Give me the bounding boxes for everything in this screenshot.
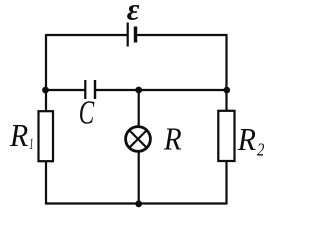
wire lamp branch lower — [138, 152, 140, 205]
battery EMF source — [128, 23, 136, 47]
junction node left — [42, 87, 49, 94]
wire middle-left horizontal — [46, 89, 85, 91]
wire lamp branch upper — [138, 89, 140, 127]
capacitor right plate — [94, 80, 96, 99]
svg-text:2: 2 — [257, 140, 264, 160]
battery short thick plate — [134, 27, 137, 43]
junction node right — [224, 87, 231, 94]
svg-text:R: R — [9, 117, 29, 153]
lamp R — [126, 127, 151, 152]
svg-text:R: R — [163, 120, 182, 156]
wire middle-right horizontal — [96, 89, 227, 91]
capacitor left plate — [84, 80, 86, 99]
svg-text:1: 1 — [29, 136, 33, 153]
wire top-left horizontal — [46, 34, 127, 36]
junction node bottom — [135, 200, 142, 207]
battery long plate — [127, 23, 129, 47]
wire right vertical lower — [225, 160, 227, 205]
svg-text:ε: ε — [127, 0, 140, 26]
capacitor C — [85, 80, 95, 99]
svg-text:R: R — [237, 121, 257, 157]
wire top-right horizontal — [136, 34, 227, 36]
wire left vertical lower — [45, 160, 47, 205]
wire left vertical upper — [45, 34, 47, 112]
wire right vertical upper — [225, 34, 227, 112]
svg-text:C: C — [79, 95, 95, 132]
junction node middle — [135, 87, 142, 94]
resistor R1 — [39, 111, 54, 161]
wire bottom horizontal — [46, 202, 227, 204]
resistor R2 — [218, 111, 234, 161]
